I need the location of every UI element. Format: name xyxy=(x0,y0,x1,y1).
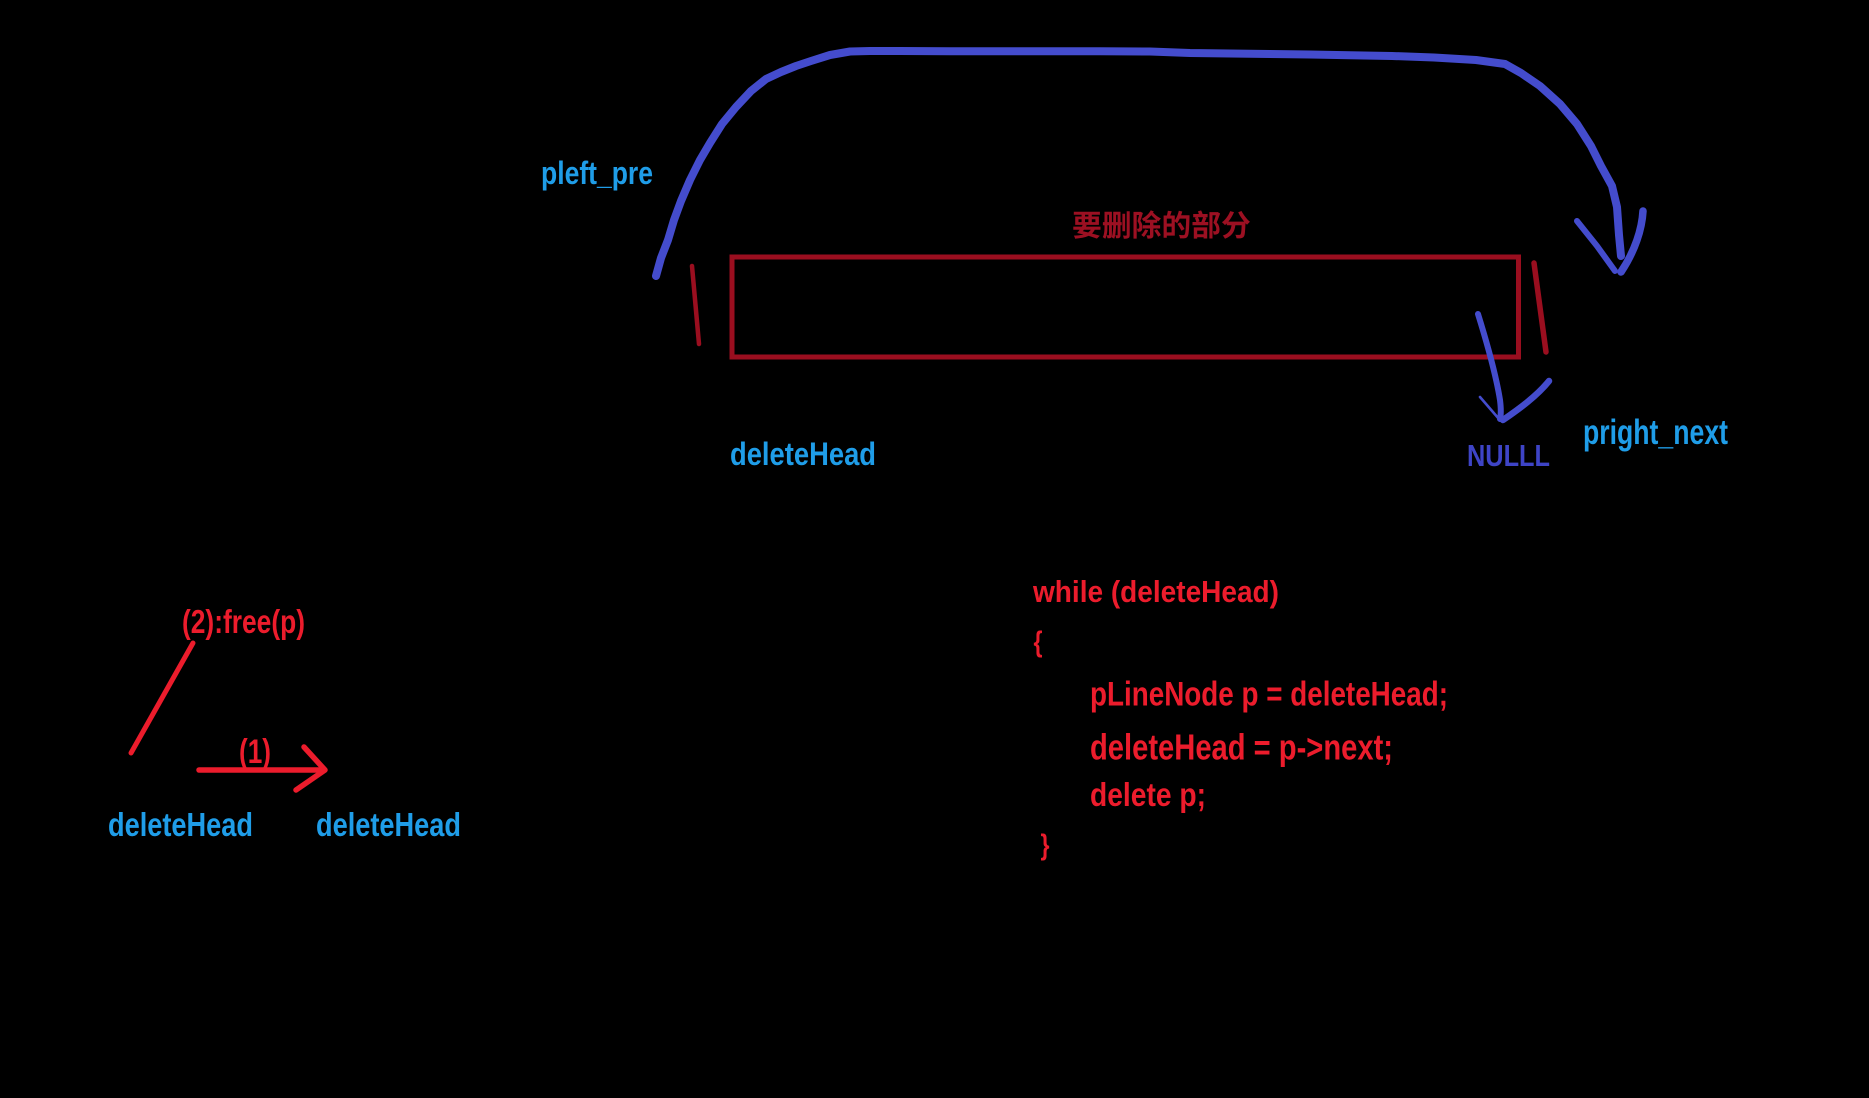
blue arrow to NULLL xyxy=(1478,314,1549,420)
title 要删除的部分 (glyph outlines) xyxy=(1073,210,1250,239)
svg-text:delete p;: delete p; xyxy=(1090,776,1206,813)
svg-text:NULLL: NULLL xyxy=(1467,438,1550,473)
code block in red xyxy=(1032,574,1448,862)
right red tick xyxy=(1534,263,1546,352)
svg-text:(1): (1) xyxy=(239,733,271,771)
blue arc from pleft_pre over the deleted section to pright_next xyxy=(656,51,1643,276)
svg-text:deleteHead: deleteHead xyxy=(730,436,876,472)
svg-text:pright_next: pright_next xyxy=(1583,413,1728,452)
red arrow (1) xyxy=(199,767,322,773)
red diagonal line xyxy=(131,643,193,753)
svg-text:deleteHead: deleteHead xyxy=(108,806,253,843)
svg-text:}: } xyxy=(1041,830,1050,862)
svg-text:deleteHead = p->next;: deleteHead = p->next; xyxy=(1090,727,1393,768)
left red tick xyxy=(692,266,699,344)
svg-text:{: { xyxy=(1034,627,1043,659)
svg-text:deleteHead: deleteHead xyxy=(316,806,461,843)
svg-text:pLineNode p = deleteHead;: pLineNode p = deleteHead; xyxy=(1090,676,1448,714)
rectangle around part to delete xyxy=(732,257,1519,357)
arrowhead of blue arc xyxy=(1577,221,1615,271)
svg-text:(2):free(p): (2):free(p) xyxy=(182,603,305,640)
svg-text:pleft_pre: pleft_pre xyxy=(541,155,653,191)
svg-text:while (deleteHead): while (deleteHead) xyxy=(1032,574,1279,609)
